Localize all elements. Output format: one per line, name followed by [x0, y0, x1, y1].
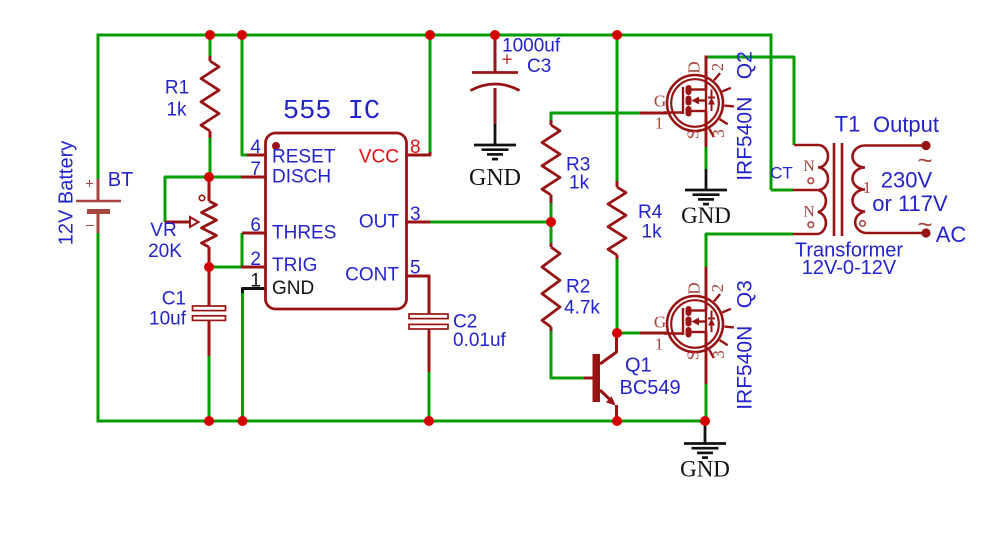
svg-text:N: N — [803, 158, 815, 175]
svg-text:10uf: 10uf — [149, 309, 187, 330]
svg-text:RESET: RESET — [272, 147, 336, 168]
wire pin1 down — [241, 292, 244, 421]
wire pin4 branch — [242, 35, 248, 155]
wire R3-R2 node — [550, 202, 553, 244]
MOSFET Q3 IRF540N — [667, 296, 723, 352]
wire VR wiper branch — [165, 177, 209, 222]
wire R3 top to Q2 gate — [551, 113, 640, 122]
svg-text:1k: 1k — [569, 172, 590, 193]
svg-text:R4: R4 — [638, 202, 663, 223]
wire C1 bottom — [208, 355, 211, 421]
C3 bottom lead — [494, 88, 497, 124]
wire Q3 gate — [617, 332, 640, 335]
wire R4 top vertical — [616, 35, 619, 182]
resistor R4 — [608, 187, 626, 255]
svg-text:1: 1 — [655, 114, 664, 133]
wire C2 bottom — [428, 371, 431, 421]
R4 leads — [616, 181, 619, 187]
svg-text:DISCH: DISCH — [272, 167, 331, 188]
primary top lead — [794, 144, 818, 147]
wire top rail — [98, 34, 771, 37]
pin3 stub — [406, 221, 430, 224]
battery BT — [76, 200, 121, 203]
resistor R2 — [542, 247, 560, 327]
svg-text:IRF540N Q3: IRF540N Q3 — [734, 280, 757, 410]
svg-text:VR: VR — [150, 220, 176, 241]
svg-text:–: – — [86, 217, 95, 234]
pin1 stub (black) — [243, 289, 267, 294]
pin5 stub + C2 top lead — [406, 276, 429, 314]
CT red lead — [793, 189, 818, 192]
svg-text:1: 1 — [655, 335, 664, 354]
wire R1 bottom — [209, 138, 212, 177]
svg-text:CONT: CONT — [345, 265, 399, 286]
pin2 stub — [241, 266, 266, 269]
ground for Q2 source — [705, 169, 708, 190]
svg-text:2: 2 — [708, 63, 727, 72]
svg-text:1000uf: 1000uf — [502, 36, 561, 57]
wire Q3 source — [705, 383, 708, 421]
wire bottom rail — [98, 420, 705, 423]
Q3 source lead — [705, 332, 708, 384]
wire R4 bottom — [616, 258, 619, 333]
svg-text:GND: GND — [681, 203, 731, 228]
svg-text:CT: CT — [770, 164, 793, 183]
svg-text:12V Battery: 12V Battery — [56, 141, 78, 246]
resistor R3 — [542, 125, 560, 195]
C1 leads — [208, 266, 211, 306]
transformer secondary winding — [852, 146, 865, 234]
svg-text:C1: C1 — [162, 289, 186, 310]
svg-text:8: 8 — [410, 137, 421, 158]
svg-text:3: 3 — [709, 129, 728, 138]
svg-text:C3: C3 — [527, 56, 551, 77]
capacitor C1 — [193, 306, 226, 311]
svg-text:12V-0-12V: 12V-0-12V — [802, 257, 897, 279]
wire CT horizontal — [771, 189, 793, 192]
svg-text:1k: 1k — [166, 100, 187, 121]
555 IC body — [266, 133, 407, 309]
svg-text:R2: R2 — [566, 277, 590, 298]
svg-text:IRF540N Q2: IRF540N Q2 — [734, 51, 757, 181]
wire OUT — [429, 221, 551, 224]
Q2 gate red — [640, 112, 668, 115]
wire battery bottom — [97, 233, 100, 423]
potentiometer VR — [202, 201, 217, 247]
pin7 stub — [241, 176, 266, 179]
pin8 stub — [406, 152, 430, 155]
svg-text:GND: GND — [680, 457, 730, 482]
svg-text:2: 2 — [708, 284, 727, 293]
wire R2 to Q1 base — [551, 330, 584, 378]
svg-text:2: 2 — [250, 249, 261, 270]
wire Q2 drain horizontal — [706, 57, 794, 145]
svg-text:7: 7 — [250, 159, 261, 180]
svg-text:20K: 20K — [148, 241, 182, 262]
svg-text:5: 5 — [410, 258, 421, 279]
svg-text:D: D — [685, 61, 704, 73]
transistor Q1 BC549 — [593, 354, 601, 402]
svg-text:AC: AC — [936, 222, 967, 247]
svg-text:6: 6 — [250, 215, 261, 236]
R2 leads — [550, 243, 553, 247]
svg-text:4: 4 — [250, 137, 261, 158]
svg-text:R1: R1 — [165, 78, 189, 99]
svg-text:0.01uf: 0.01uf — [453, 330, 507, 351]
transformer T1 primary winding — [818, 145, 828, 234]
Q3 drain lead — [705, 267, 708, 311]
Q3 gate red — [640, 332, 668, 335]
ground for C3 — [494, 124, 497, 145]
resistor R1 — [201, 61, 219, 131]
svg-text:3: 3 — [410, 204, 421, 225]
Q2 drain lead — [705, 56, 708, 91]
svg-text:OUT: OUT — [359, 212, 400, 233]
svg-text:GND: GND — [272, 278, 314, 299]
svg-text:S: S — [684, 130, 703, 139]
pin6 stub — [242, 232, 266, 235]
svg-text:BT: BT — [108, 169, 134, 191]
svg-text:BC549: BC549 — [620, 377, 681, 399]
secondary leads — [865, 144, 926, 147]
svg-text:3: 3 — [709, 350, 728, 359]
pin4 stub — [247, 154, 266, 157]
primary bottom lead — [793, 233, 818, 236]
wire Q3 drain — [706, 234, 793, 267]
VR wiper circle — [199, 195, 204, 200]
svg-text:230V: 230V — [881, 168, 933, 193]
MOSFET Q2 IRF540N — [667, 75, 723, 131]
svg-text:D: D — [685, 282, 704, 294]
C3 top lead — [494, 35, 497, 72]
svg-text:THRES: THRES — [272, 223, 336, 244]
svg-text:Output: Output — [873, 112, 939, 137]
svg-text:G: G — [654, 92, 666, 111]
VR wiper arrowhead — [190, 217, 199, 227]
svg-text:or 117V: or 117V — [872, 191, 948, 216]
svg-text:1k: 1k — [642, 222, 663, 243]
wire R1 top — [209, 35, 212, 56]
R1 leads — [209, 56, 212, 61]
ground for Q3 source — [704, 421, 707, 444]
Q2 source lead — [705, 111, 708, 147]
wire VCC vertical — [429, 35, 432, 154]
battery leads — [97, 179, 100, 201]
wire TRIG — [209, 266, 242, 269]
polarity dots — [808, 178, 814, 184]
transformer core — [833, 143, 836, 236]
wire battery top — [97, 34, 100, 180]
VR wiper arrow line — [165, 221, 190, 224]
VR top lead — [208, 177, 211, 201]
svg-text:+: + — [85, 176, 94, 193]
svg-text:S: S — [684, 351, 703, 360]
VR bottom lead — [208, 247, 211, 268]
junction dots — [205, 30, 215, 40]
svg-text:G: G — [654, 313, 666, 332]
svg-text:T1: T1 — [835, 112, 861, 137]
output terminals — [921, 141, 930, 150]
svg-text:GND: GND — [469, 165, 521, 191]
svg-text:555 IC: 555 IC — [283, 97, 380, 127]
wire Q2 source — [705, 146, 708, 169]
svg-text:1: 1 — [863, 178, 872, 197]
capacitor C2 — [409, 314, 448, 319]
svg-text:4.7k: 4.7k — [564, 298, 600, 319]
wire THRES-TRIG tie — [241, 233, 244, 267]
svg-text:Q1: Q1 — [625, 355, 652, 377]
capacitor C3 (electrolytic) — [472, 71, 518, 74]
svg-text:VCC: VCC — [359, 147, 399, 168]
svg-text:N: N — [803, 204, 815, 221]
svg-text:1: 1 — [250, 271, 261, 292]
wire DISCH — [209, 176, 241, 179]
wire CT vertical — [770, 34, 773, 191]
svg-text:TRIG: TRIG — [272, 255, 317, 276]
C2 bottom lead — [428, 327, 431, 372]
R3 leads — [550, 120, 553, 125]
Q1 base red — [584, 377, 593, 380]
